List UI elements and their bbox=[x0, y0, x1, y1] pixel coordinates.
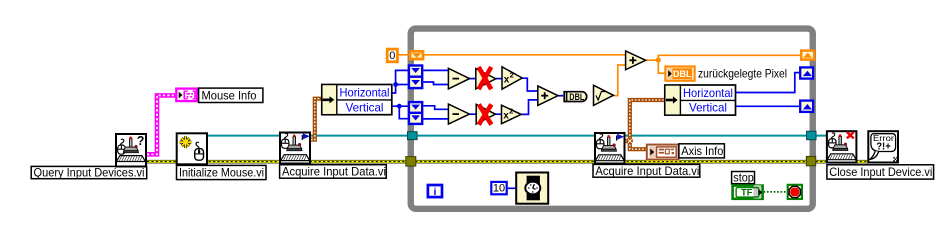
svg-text:Horizontal: Horizontal bbox=[340, 86, 390, 100]
svg-text:?!+: ?!+ bbox=[876, 141, 891, 152]
svg-text:DBL: DBL bbox=[673, 69, 692, 79]
svg-text:2: 2 bbox=[509, 106, 513, 115]
svg-text:Axis Info: Axis Info bbox=[681, 144, 723, 158]
svg-text:Initialize Mouse.vi: Initialize Mouse.vi bbox=[179, 166, 264, 180]
svg-text:10: 10 bbox=[493, 183, 505, 195]
svg-text:zurückgelegte Pixel: zurückgelegte Pixel bbox=[698, 67, 787, 81]
svg-text:Vertical: Vertical bbox=[346, 101, 384, 115]
svg-text:Close Input Device.vi: Close Input Device.vi bbox=[829, 165, 932, 179]
svg-text:2: 2 bbox=[510, 70, 514, 79]
svg-text:Vertical: Vertical bbox=[689, 101, 727, 115]
svg-text:DBL: DBL bbox=[569, 92, 584, 103]
svg-text:0: 0 bbox=[389, 50, 395, 62]
svg-text:Acquire Input Data.vi: Acquire Input Data.vi bbox=[595, 164, 699, 178]
svg-text:TF: TF bbox=[741, 187, 753, 197]
svg-text:Mouse Info: Mouse Info bbox=[202, 88, 257, 102]
svg-text:Acquire Input Data.vi: Acquire Input Data.vi bbox=[282, 165, 386, 179]
svg-text:i: i bbox=[434, 186, 437, 198]
svg-text:?: ? bbox=[137, 134, 145, 148]
svg-text:stop: stop bbox=[733, 171, 754, 185]
svg-text:Horizontal: Horizontal bbox=[683, 86, 733, 100]
